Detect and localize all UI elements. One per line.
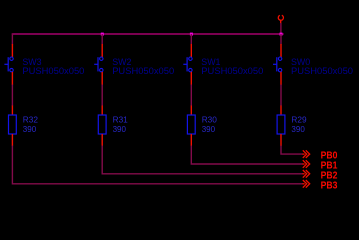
- pin: R30 top pin: [190, 106, 192, 116]
- resistor R31: [98, 115, 106, 134]
- switch SW1: [183, 57, 192, 72]
- pin: SW3 bottom pin: [11, 72, 13, 85]
- wire: bus to SW2 pin: [101, 34, 103, 45]
- pin: SW0 top pin: [280, 44, 282, 57]
- wire: SW2 to R31: [101, 85, 103, 107]
- switch SW3: [4, 57, 13, 72]
- switch SW2: [94, 57, 103, 72]
- wire: R30 down to PB1 row: [191, 146, 302, 165]
- svg-text:PUSH050x050: PUSH050x050: [291, 65, 353, 76]
- pin: SW0 bottom pin: [280, 72, 282, 85]
- port arrow PB1: [302, 160, 309, 168]
- wire: R32 down to PB3 row: [12, 146, 302, 184]
- wire: R31 down to PB2 row: [102, 146, 302, 174]
- pin: SW2 bottom pin: [101, 72, 103, 85]
- svg-text:390: 390: [291, 124, 305, 134]
- svg-text:390: 390: [202, 124, 216, 134]
- wire: SW3 to R32: [11, 85, 13, 107]
- wire: R29 down to PB0 row: [281, 146, 303, 155]
- svg-text:390: 390: [113, 124, 127, 134]
- svg-text:PB3: PB3: [321, 180, 338, 191]
- wire: bus to SW1 pin: [190, 34, 192, 45]
- power port VCC circle: [278, 15, 283, 23]
- switch SW0: [273, 57, 282, 72]
- pin: R31 top pin: [101, 106, 103, 116]
- pin: SW1 bottom pin: [190, 72, 192, 85]
- resistor R29: [277, 115, 285, 134]
- wire: SW1 to R30: [190, 85, 192, 107]
- port arrow PB2: [302, 170, 309, 178]
- resistor R30: [187, 115, 195, 134]
- node junction at column 4: [280, 33, 283, 36]
- pin: R32 top pin: [11, 106, 13, 116]
- svg-text:PUSH050x050: PUSH050x050: [201, 65, 263, 76]
- wire: bus to SW0 pin: [280, 34, 282, 45]
- pin: R29 top pin: [280, 106, 282, 116]
- wire: SW0 to R29: [280, 85, 282, 107]
- svg-text:390: 390: [23, 124, 37, 134]
- wire: VCC bus horizontal: [12, 33, 284, 35]
- pin: R29 bottom pin: [280, 134, 282, 146]
- svg-text:PUSH050x050: PUSH050x050: [112, 65, 174, 76]
- pin: SW2 top pin: [101, 44, 103, 57]
- pin: SW1 top pin: [190, 44, 192, 57]
- pin: R30 bottom pin: [190, 134, 192, 146]
- pin: SW3 top pin: [11, 44, 13, 57]
- node junction at column 2: [101, 33, 104, 36]
- port arrow PB3: [302, 180, 309, 188]
- wire: bus to SW3 pin: [11, 33, 13, 44]
- node junction at column 3: [190, 33, 193, 36]
- svg-text:PUSH050x050: PUSH050x050: [22, 65, 84, 76]
- pin: R32 bottom pin: [11, 134, 13, 146]
- port arrow PB0: [302, 150, 309, 158]
- pin: R31 bottom pin: [101, 134, 103, 146]
- resistor R32: [9, 115, 17, 134]
- wire: power port to bus: [280, 23, 282, 34]
